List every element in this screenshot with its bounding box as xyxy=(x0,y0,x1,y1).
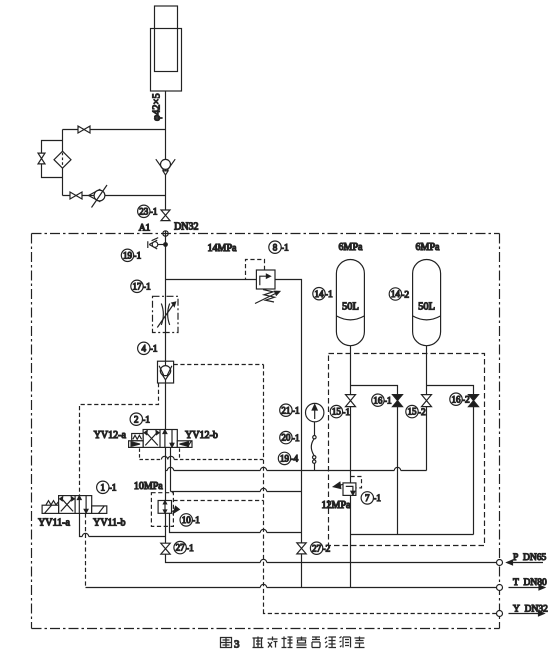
item circle 8-1 xyxy=(269,241,281,253)
wire: release collector line xyxy=(351,534,474,536)
svg-text:YV12-a: YV12-a xyxy=(94,430,127,441)
svg-text:-2: -2 xyxy=(462,396,470,406)
item circle 23-1 xyxy=(138,205,150,217)
relief valve 8-1 spring and adjust arrow xyxy=(263,290,275,303)
svg-text:-1: -1 xyxy=(109,484,117,494)
svg-text:50L: 50L xyxy=(342,301,359,312)
pressure gauge 21-1 xyxy=(306,403,324,421)
item circle 19-1 xyxy=(121,249,133,261)
wire: main line inside station xyxy=(165,236,167,429)
item circle 14-1 xyxy=(313,288,325,300)
YV12 right solenoid xyxy=(177,441,192,448)
7-1 pilot loop xyxy=(351,477,362,488)
svg-text:-1: -1 xyxy=(373,494,381,504)
svg-text:YV12-b: YV12-b xyxy=(185,430,218,441)
item circle 14-2 xyxy=(389,288,401,300)
svg-text:-1: -1 xyxy=(342,408,350,418)
accumulator 14-2 shell xyxy=(413,260,441,346)
wire: 10-1 outlet to valve 27-2 branch xyxy=(170,513,261,532)
svg-text:-1: -1 xyxy=(133,252,141,262)
svg-text:19: 19 xyxy=(123,250,133,260)
item circle 27-2 xyxy=(310,542,322,554)
svg-text:23: 23 xyxy=(139,206,149,216)
svg-text:φ42×5: φ42×5 xyxy=(152,93,163,121)
flow control valve 17-1 enclosure xyxy=(153,296,179,332)
port P arrow xyxy=(511,562,543,564)
svg-text:-1: -1 xyxy=(292,407,300,417)
station boundary (dash-dot frame) xyxy=(32,234,500,629)
item circle 16-2 xyxy=(450,393,462,405)
wire: T return header xyxy=(86,587,261,589)
svg-text:T DN80: T DN80 xyxy=(513,578,547,588)
item circle 4-1 xyxy=(138,342,150,354)
filter (diamond with dashed element) xyxy=(54,151,71,168)
port P connector xyxy=(497,560,503,566)
item circle 19-4 xyxy=(278,452,290,464)
10-1 drain arrow xyxy=(172,510,175,511)
svg-text:6MPa: 6MPa xyxy=(339,242,363,253)
pressure reducing valve 7-1 body xyxy=(343,483,356,496)
svg-text:-1: -1 xyxy=(292,434,300,444)
svg-text:15: 15 xyxy=(332,407,342,417)
port T connector xyxy=(497,585,503,591)
port T arrow xyxy=(509,587,541,589)
wire: accumulator 14-2 drop line through 15-2 to H1 xyxy=(426,346,428,471)
svg-text:-1: -1 xyxy=(142,416,150,426)
valve 15-2 (shut-off) xyxy=(422,395,432,407)
valve 15-1 (shut-off) xyxy=(346,395,356,407)
cylinder (plunger ram) outer body xyxy=(151,29,182,92)
gauge damper / isolator 20-1 19-4 xyxy=(314,422,316,436)
svg-text:-1: -1 xyxy=(325,290,333,300)
svg-text:15: 15 xyxy=(408,407,418,417)
svg-text:14MPa: 14MPa xyxy=(208,243,237,254)
wire: filter bypass loop xyxy=(42,141,63,178)
svg-text:-1: -1 xyxy=(281,244,289,254)
boundary crossing connector A1 xyxy=(163,231,168,236)
svg-text:-4: -4 xyxy=(290,455,298,465)
wire: branch to valve 16-2 xyxy=(427,386,474,535)
wire: top bypass line xyxy=(63,129,166,131)
YV12 solenoid drain lines to collector xyxy=(140,448,180,459)
header H2 xyxy=(171,491,261,493)
YV12 left solenoid with spring xyxy=(132,434,143,441)
wire: relief outlet to vertical V301 xyxy=(275,280,302,588)
wire: YV11 pressure port to main line xyxy=(80,513,83,536)
shut-off valve (bottom line) xyxy=(70,192,82,199)
svg-text:-1: -1 xyxy=(186,544,194,554)
item circle 15-1 xyxy=(330,405,342,417)
port Y arrow xyxy=(509,613,541,615)
svg-text:6MPa: 6MPa xyxy=(416,242,440,253)
valve 16-2 (normally closed, filled) xyxy=(469,395,479,407)
svg-text:-2: -2 xyxy=(401,290,409,300)
shut-off valve (top line) xyxy=(78,126,90,133)
svg-text:A1: A1 xyxy=(139,223,151,233)
svg-text:10: 10 xyxy=(182,515,192,525)
caption 图3 改进后的液压系统 (simulated CJK strokes) xyxy=(221,637,365,651)
solenoid valve YV11 body xyxy=(59,496,92,514)
valve 16-1 (normally closed, filled) xyxy=(393,395,403,407)
check valve on main riser (circle in V-seat) xyxy=(161,159,171,169)
item circle 27-1 xyxy=(174,541,186,553)
svg-text:4: 4 xyxy=(142,343,147,353)
item circle 15-2 xyxy=(406,405,418,417)
pilot line from 4-1 to drain collector xyxy=(174,364,264,366)
svg-text:1: 1 xyxy=(101,482,106,492)
svg-text:-2: -2 xyxy=(418,408,426,418)
cylinder plunger rod xyxy=(155,6,178,72)
svg-text:-1: -1 xyxy=(143,283,151,293)
drain collector line to Y port xyxy=(263,365,265,612)
svg-text:20: 20 xyxy=(281,433,291,443)
7-1 inlet arrow xyxy=(339,484,344,485)
wire: left vertical of cooler loop xyxy=(62,130,64,196)
accumulator block enclosure (dashed) xyxy=(329,354,485,546)
svg-text:2: 2 xyxy=(134,414,139,424)
YV11 right solenoid xyxy=(92,506,107,514)
pressure reducing valve 10-1 body xyxy=(158,501,171,514)
svg-text:19: 19 xyxy=(280,454,290,464)
relief valve 8-1 pilot line xyxy=(246,260,265,280)
svg-text:-1: -1 xyxy=(192,516,200,526)
svg-text:YV11-a: YV11-a xyxy=(38,517,70,528)
svg-text:YV11-b: YV11-b xyxy=(93,517,125,528)
item circle 21-1 xyxy=(280,404,292,416)
svg-text:27: 27 xyxy=(176,543,186,553)
svg-text:17: 17 xyxy=(133,281,143,291)
svg-text:7: 7 xyxy=(365,493,370,503)
svg-text:DN32: DN32 xyxy=(174,221,198,232)
svg-text:21: 21 xyxy=(281,405,290,415)
item circle 7-1 xyxy=(361,492,373,504)
pilot operated check valve 4-1 xyxy=(158,361,174,383)
YV11 left spring and solenoid xyxy=(46,501,59,505)
item circle 10-1 xyxy=(180,514,192,526)
svg-text:8: 8 xyxy=(273,242,278,252)
svg-text:14: 14 xyxy=(391,289,401,299)
check valve (pump side, ball against seat) xyxy=(89,189,101,202)
accumulator 14-1 shell xyxy=(336,260,364,346)
svg-text:Y DN32: Y DN32 xyxy=(513,605,548,615)
solenoid valve YV12 body xyxy=(143,430,177,448)
svg-text:12MPa: 12MPa xyxy=(322,500,351,511)
valve 27-1 (shut-off) xyxy=(161,543,170,554)
pressure reducing valve 10-1 enclosure xyxy=(151,493,173,527)
header H1 (to accumulator block) xyxy=(166,470,168,472)
wire: YV12 A-port down to header H2 xyxy=(170,447,172,491)
bleed/test valve 19-1 xyxy=(164,243,168,247)
flow control valve throttle symbol xyxy=(161,304,163,325)
item circle 2-1 xyxy=(130,413,142,425)
svg-text:-1: -1 xyxy=(150,345,158,355)
item circle 17-1 xyxy=(131,280,143,292)
svg-text:16: 16 xyxy=(373,395,383,405)
port Y connector xyxy=(497,611,503,617)
wire: accumulator 14-1 drop line through 15-1 and 7-1 to T xyxy=(350,346,352,588)
wire: branch to valve 16-1 xyxy=(351,386,398,535)
valve 23-1 (shut-off on main riser) xyxy=(161,210,170,221)
svg-text:14: 14 xyxy=(315,289,325,299)
wire: bottom return line xyxy=(63,195,166,197)
wire: cylinder to node A1 (main vertical) xyxy=(165,91,167,211)
item circle 16-1 xyxy=(372,394,384,406)
svg-text:27: 27 xyxy=(312,543,322,553)
svg-text:16: 16 xyxy=(452,394,462,404)
relief valve 8-1 body xyxy=(256,270,275,289)
svg-text:3: 3 xyxy=(234,639,240,651)
svg-text:P DN65: P DN65 xyxy=(513,553,547,563)
svg-text:-1: -1 xyxy=(150,208,158,218)
svg-text:-1: -1 xyxy=(384,397,392,407)
wire: YV12 P-port down to valve 27-1 and P header xyxy=(166,447,261,562)
valve 27-2 (shut-off) xyxy=(297,543,306,554)
svg-text:10MPa: 10MPa xyxy=(134,481,163,492)
bypass relief valve (small vertical bowtie) xyxy=(38,153,45,164)
wire: branch to relief valve 8-1 xyxy=(166,279,257,281)
10-1 pilot line to collector xyxy=(173,500,263,502)
item circle 20-1 xyxy=(280,431,292,443)
svg-text:50L: 50L xyxy=(418,301,435,312)
item circle 1-1 xyxy=(97,481,109,493)
YV11 tank port (drain) xyxy=(85,513,87,587)
pilot line from 4-1 to valve YV11 xyxy=(80,383,159,496)
